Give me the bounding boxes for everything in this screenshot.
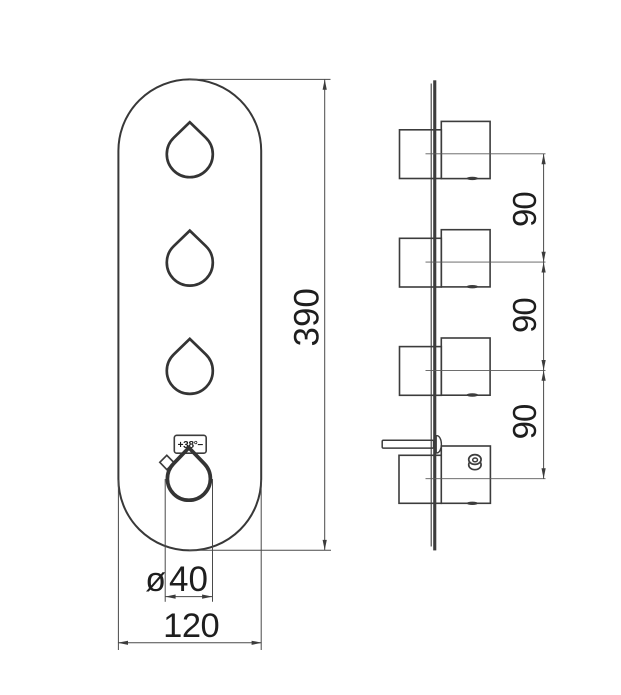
dim ø40: left arrow bbox=[165, 595, 175, 599]
side knob 4: centerline bbox=[426, 478, 546, 480]
side knob 4: button inner ring bbox=[473, 458, 478, 462]
side knob 2: back square bbox=[400, 238, 442, 287]
side view wall plate thick line bbox=[433, 80, 436, 550]
side knob 3: back square bbox=[400, 347, 442, 396]
dim 90: arrow down at centerline 4 bbox=[542, 468, 546, 478]
svg-text:ø: ø bbox=[145, 561, 166, 599]
front view body (stadium outline) bbox=[118, 79, 261, 550]
dim 90: arrows at centerline 3 bbox=[542, 360, 546, 370]
safety stop tab on thermostat knob bbox=[160, 455, 174, 469]
side knob 4: back square bbox=[399, 455, 441, 503]
dim ø40: dimension line bbox=[165, 596, 212, 598]
side knob 4: lever hub bbox=[436, 436, 441, 453]
dim 390: dimension line bbox=[324, 79, 326, 550]
side knob 3: bottom detail bbox=[467, 393, 479, 396]
dim 120: right arrow bbox=[252, 641, 262, 645]
side knob 4: button cylinder lower bbox=[469, 460, 481, 470]
side knob 4: lever bar bbox=[382, 440, 433, 448]
side knob 1: back square bbox=[400, 130, 442, 179]
dim 90: arrows at centerline 2 bbox=[542, 252, 546, 262]
dim 390: top arrow bbox=[323, 79, 327, 89]
dim 390: top extension line bbox=[189, 78, 331, 80]
dim 120: dimension line bbox=[118, 642, 261, 644]
dim ø40: right extension line bbox=[212, 479, 214, 602]
dim 120: right extension line bbox=[260, 480, 262, 650]
svg-text:40: 40 bbox=[169, 560, 208, 599]
side knob 1: centerline bbox=[426, 153, 546, 155]
dim ø40: right arrow bbox=[202, 595, 212, 599]
svg-text:90: 90 bbox=[506, 404, 543, 439]
knob handle 1 (teardrop) bbox=[167, 122, 213, 177]
side knob 3: front square bbox=[441, 338, 490, 395]
dim 120: left extension line bbox=[117, 480, 119, 650]
side knob 2: front square bbox=[441, 230, 490, 287]
knob handle 2 (teardrop) bbox=[167, 231, 213, 286]
side knob 4: button top ellipse bbox=[469, 455, 481, 465]
side knob 4: front square bbox=[441, 446, 490, 503]
side knob 2: bottom detail bbox=[467, 285, 479, 288]
side knob 4: bottom detail bbox=[467, 502, 479, 505]
dim 390: bottom extension line bbox=[189, 549, 331, 551]
dim ø40: left extension line bbox=[164, 479, 166, 602]
side knob 3: centerline bbox=[426, 369, 546, 371]
svg-text:120: 120 bbox=[163, 607, 219, 645]
svg-text:390: 390 bbox=[288, 288, 327, 346]
side knob 1: front square bbox=[441, 121, 490, 178]
svg-text:90: 90 bbox=[506, 298, 543, 333]
temperature label +38 box bbox=[174, 435, 206, 453]
thermostat knob 4 (teardrop, thick) bbox=[167, 448, 210, 501]
knob handle 3 (teardrop) bbox=[167, 339, 213, 394]
svg-text:90: 90 bbox=[506, 192, 543, 227]
dim 120: left arrow bbox=[118, 641, 128, 645]
dim 90: arrow up at centerline 1 bbox=[542, 154, 546, 164]
dim 90: dimension line bbox=[543, 154, 545, 479]
side knob 1: bottom detail bbox=[467, 177, 479, 180]
dim 390: bottom arrow bbox=[323, 540, 327, 550]
side view wall plate thin line bbox=[430, 84, 432, 547]
side knob 2: centerline bbox=[426, 261, 546, 263]
